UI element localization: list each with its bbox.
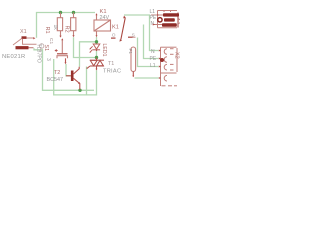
svg-text:X2: X2 bbox=[174, 52, 180, 59]
svg-text:X1: X1 bbox=[20, 29, 27, 35]
svg-text:T2: T2 bbox=[54, 70, 60, 76]
svg-text:S1: S1 bbox=[43, 45, 49, 52]
svg-text:X3: X3 bbox=[176, 18, 181, 25]
svg-text:LED1: LED1 bbox=[101, 44, 107, 57]
svg-text:C1: C1 bbox=[48, 38, 54, 44]
svg-text:T1: T1 bbox=[108, 61, 114, 67]
svg-text:R1: R1 bbox=[44, 27, 50, 34]
svg-text:TRIAC: TRIAC bbox=[103, 69, 121, 75]
svg-text:K1: K1 bbox=[112, 25, 119, 31]
svg-text:3: 3 bbox=[45, 58, 51, 61]
svg-text:TL37PO: TL37PO bbox=[36, 44, 42, 63]
svg-text:N: N bbox=[151, 49, 155, 55]
svg-text:N: N bbox=[151, 21, 155, 27]
svg-text:R2: R2 bbox=[64, 26, 70, 33]
svg-text:L1: L1 bbox=[150, 63, 156, 69]
svg-text:O: O bbox=[112, 32, 116, 38]
svg-text:S: S bbox=[132, 32, 135, 38]
svg-text:1k: 1k bbox=[52, 25, 58, 31]
svg-text:24V: 24V bbox=[100, 15, 110, 21]
svg-text:NE021R: NE021R bbox=[2, 54, 25, 60]
svg-text:BC547: BC547 bbox=[47, 77, 63, 83]
svg-text:F1: F1 bbox=[127, 49, 133, 55]
svg-text:PE: PE bbox=[150, 56, 157, 62]
